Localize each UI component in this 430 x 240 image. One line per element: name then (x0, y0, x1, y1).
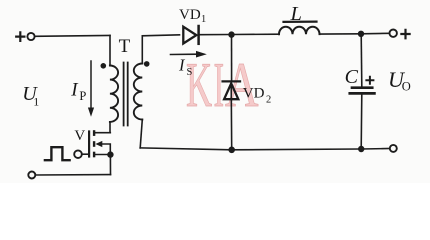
label IS (178, 56, 193, 79)
transformer core (124, 63, 128, 126)
transformer T primary winding (110, 66, 118, 122)
transistor V gate bar (88, 130, 90, 157)
bottom rail primary (35, 174, 110, 176)
svg-text:2: 2 (266, 95, 271, 106)
svg-text:O: O (402, 80, 411, 94)
wire VD1 to node (199, 34, 232, 36)
wire to primary top (109, 35, 111, 65)
svg-text:L: L (290, 3, 302, 25)
diode VD1 triangle (183, 27, 196, 44)
secondary phase dot (144, 61, 150, 67)
wire L to C node (320, 33, 362, 35)
label L (290, 3, 302, 25)
svg-text:K: K (186, 51, 212, 121)
bottom rail secondary (140, 148, 390, 150)
wire input top (35, 34, 110, 37)
svg-text:V: V (74, 128, 85, 144)
input + terminal (27, 33, 34, 40)
wire primary bottom to drain (109, 122, 111, 133)
wire to output plus (361, 32, 390, 35)
capacitor C plates (352, 86, 372, 89)
svg-text:I: I (70, 79, 79, 100)
diode VD1 cathode bar (197, 26, 200, 44)
transformer T secondary winding (134, 64, 143, 120)
label IP (70, 79, 86, 103)
label C (345, 66, 359, 88)
capacitor plus label (366, 77, 373, 84)
pulse drive symbol (45, 147, 70, 160)
wire node to VD2 (231, 35, 233, 81)
wire C bottom lead (360, 93, 363, 149)
label VD1 (179, 7, 206, 25)
wire secondary bottom (140, 120, 142, 148)
input - terminal (28, 172, 35, 179)
svg-text:I: I (214, 49, 225, 120)
wire gate lead (82, 153, 88, 155)
inductor L core bar (284, 21, 317, 23)
node: input plus label (16, 32, 24, 41)
label UO (388, 67, 411, 94)
wire secondary top to VD1 (142, 35, 179, 64)
junction node source (107, 151, 113, 157)
junction node VD2 bottom (228, 147, 235, 154)
output plus label (401, 30, 409, 39)
svg-text:1: 1 (201, 14, 206, 25)
junction node L/C (358, 31, 364, 37)
current arrow IP (90, 61, 92, 108)
inductor L (279, 27, 320, 34)
output + terminal (390, 30, 397, 37)
label U1 (22, 83, 39, 108)
svg-text:S: S (187, 67, 193, 78)
svg-text:P: P (79, 89, 86, 103)
transistor V source stub (95, 154, 110, 156)
junction node C bottom (358, 146, 364, 152)
svg-text:1: 1 (33, 94, 39, 108)
svg-text:C: C (345, 66, 359, 88)
wire node to L (232, 33, 280, 35)
junction node VD1/VD2/L (228, 31, 234, 37)
current arrow IS (171, 53, 198, 55)
transistor V gate terminal circle (74, 150, 82, 158)
label V (74, 128, 85, 144)
label VD2 (243, 85, 271, 105)
svg-text:I: I (178, 56, 186, 75)
svg-text:VD: VD (179, 7, 201, 23)
transistor V drain stub (95, 132, 110, 134)
wire source down (109, 155, 111, 175)
output - terminal (390, 145, 397, 152)
watermark KIA (186, 49, 258, 121)
primary phase dot (101, 63, 107, 69)
diode VD2 triangle (224, 83, 238, 99)
wire VD2 to bottom rail (230, 83, 233, 149)
diode VD2 cathode bar (223, 80, 240, 82)
wire C top lead (360, 34, 363, 87)
transformer label T (119, 36, 131, 57)
transistor V body stub with arrow (101, 144, 111, 155)
svg-text:T: T (119, 36, 131, 57)
svg-text:VD: VD (243, 85, 265, 101)
